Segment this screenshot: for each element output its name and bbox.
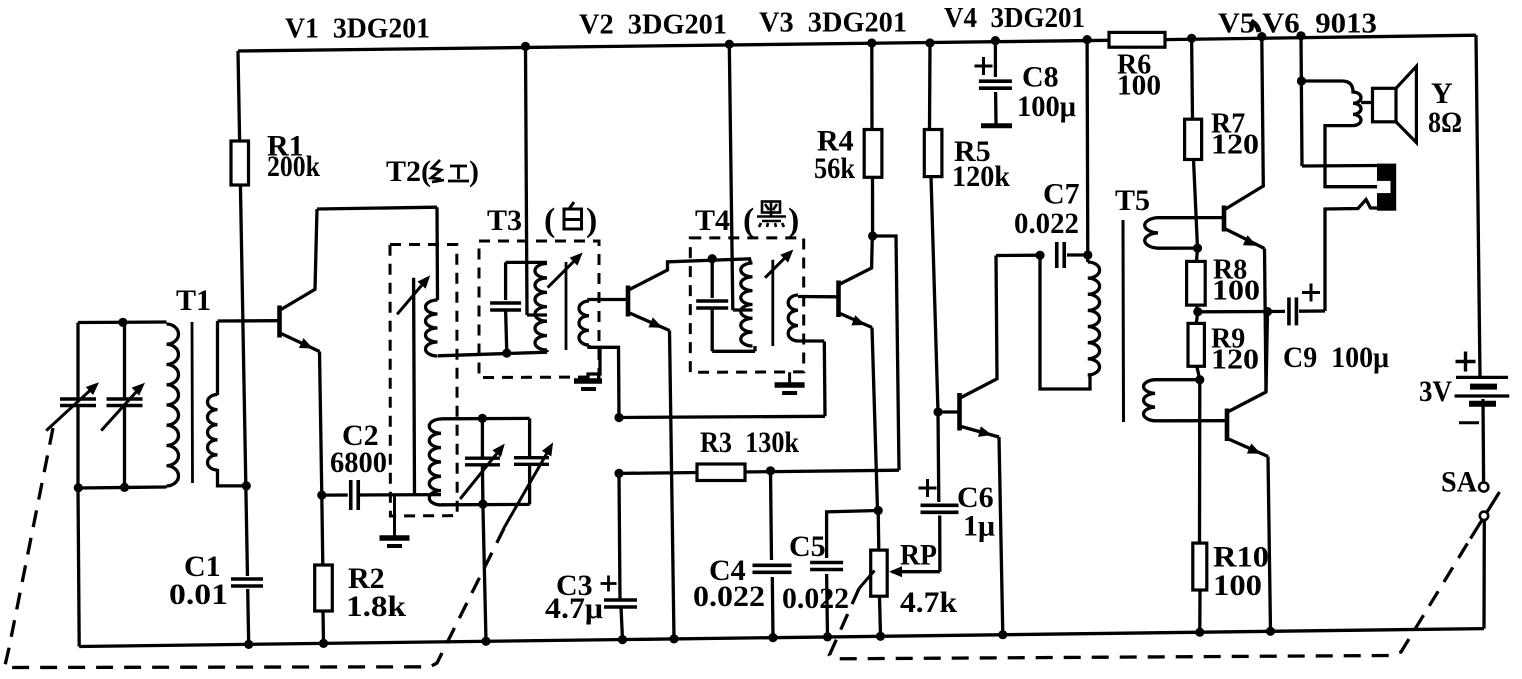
- resistor R4: [864, 130, 882, 178]
- label T4 black fullparen: [743, 202, 799, 239]
- wire AGC riser to T4 secondary: [823, 342, 827, 417]
- label V2 3DG201: [579, 9, 727, 41]
- transistor V4 base bar: [957, 393, 962, 431]
- label V3 3DG201: [759, 7, 907, 39]
- wire tank to ground rail: [78, 488, 79, 647]
- node top rail junction x1087: [1083, 35, 1092, 44]
- wire R3 line: [619, 470, 899, 473]
- wire C3 stem top: [619, 473, 620, 600]
- resistor R2 stem top: [322, 495, 323, 565]
- transformer T2 osc tank top: [441, 417, 530, 421]
- transistor V5 collector: [1226, 37, 1264, 209]
- wire tank loop left lower: [76, 407, 79, 488]
- wire rail drop to output transformer: [1301, 36, 1302, 166]
- dashed gang line tuning capacitor: [5, 428, 505, 668]
- wire T4 secondary top to V3 base: [798, 295, 837, 299]
- earphone jack: [1377, 164, 1396, 211]
- transformer T5 primary winding: [1088, 262, 1100, 375]
- label T3 white fullparen: [544, 202, 597, 239]
- label R10 value: [1213, 569, 1262, 602]
- wire C4 stem top: [771, 471, 772, 560]
- label R4 value: [814, 152, 855, 185]
- label C2: [342, 419, 379, 452]
- transformer T2 shield box dashed: [390, 245, 457, 517]
- transformer T2 primary winding: [426, 300, 438, 356]
- potentiometer RP stem top: [877, 511, 881, 551]
- wire rail drop to T4 tap: [729, 44, 752, 310]
- label T1: [176, 284, 211, 317]
- label C5: [789, 530, 826, 563]
- svg-text:T1: T1: [176, 284, 211, 317]
- transistor V3 base bar: [836, 281, 841, 318]
- node top rail junction x729: [725, 40, 734, 49]
- node bottom rail junction x1199: [1195, 628, 1204, 637]
- label R5 value: [952, 160, 1010, 193]
- svg-text:1μ: 1μ: [963, 510, 995, 543]
- variable capacitor Ca line: [481, 418, 485, 504]
- node T2 tank bottom junction: [478, 500, 487, 509]
- svg-text:V1 3DG201: V1 3DG201: [285, 13, 430, 45]
- capacitor C9: [1286, 296, 1300, 326]
- transformer T1 secondary winding: [208, 395, 218, 471]
- resistor R6: [1109, 32, 1165, 47]
- label T2: [386, 155, 431, 188]
- label R9 value: [1211, 345, 1259, 376]
- wire C7 right: [1067, 253, 1087, 256]
- label C3 value: [545, 592, 603, 625]
- label R7: [1211, 108, 1245, 139]
- label T2 red hanzi: [431, 160, 469, 182]
- node bottom rail junction x880: [876, 632, 885, 641]
- node bottom rail junction x323: [319, 639, 328, 648]
- svg-text:V2 3DG201: V2 3DG201: [579, 9, 727, 41]
- transformer T1 primary winding: [167, 324, 179, 486]
- wire C4 stem bottom: [771, 577, 775, 638]
- label C2 value: [330, 446, 387, 479]
- node R3 C4 junction: [766, 466, 775, 475]
- capacitor C6 stem top: [936, 412, 940, 502]
- label C4: [709, 554, 746, 587]
- label C6 value: [963, 510, 995, 543]
- wire rail drop to T3 tap: [526, 46, 548, 315]
- transistor V2 emitter: [630, 313, 675, 639]
- node C1b bottom: [120, 483, 129, 492]
- label R4: [817, 125, 854, 158]
- capacitor C6 plus: [919, 479, 937, 497]
- capacitor T4 internal bottom stem: [711, 308, 714, 351]
- wire V1 collector to T2 primary: [435, 207, 439, 300]
- node R8 R9 junction: [1193, 307, 1202, 316]
- label R6: [1117, 50, 1151, 81]
- node top rail junction x1262: [1257, 32, 1266, 41]
- capacitor C1: [230, 576, 264, 589]
- label V5 V6 9013: [1218, 8, 1377, 40]
- potentiometer RP wiper arrow: [889, 566, 940, 577]
- resistor R5 stem top: [928, 43, 932, 130]
- wire C9 right: [1299, 309, 1325, 313]
- svg-text:100μ: 100μ: [1017, 90, 1076, 123]
- wire C2 right: [359, 493, 441, 497]
- resistor R4 stem bottom: [871, 177, 874, 236]
- transformer T3 primary winding: [535, 264, 547, 351]
- svg-text:C8: C8: [1022, 60, 1059, 93]
- transistor V6 emitter: [1229, 439, 1271, 631]
- resistor R9 stem top: [1196, 312, 1198, 324]
- wire V4 collector to C7 node: [996, 254, 1038, 258]
- label R2: [348, 562, 385, 595]
- wire V4 base wire: [938, 410, 958, 413]
- label C9 value: [1283, 341, 1389, 374]
- resistor R9: [1188, 323, 1204, 366]
- label SA: [1441, 466, 1477, 499]
- wire C6 to RP wiper: [938, 516, 942, 572]
- label C3: [556, 569, 593, 602]
- capacitor C6: [920, 502, 960, 515]
- svg-text:0.022: 0.022: [693, 580, 765, 613]
- svg-text:0.022: 0.022: [782, 582, 849, 615]
- wire T5 primary bottom loop: [1040, 255, 1090, 389]
- transformer T2 osc winding: [429, 419, 441, 505]
- svg-text:SA: SA: [1441, 466, 1477, 499]
- label C5 value: [782, 582, 849, 615]
- wire C8 stem bottom: [994, 92, 998, 124]
- capacitor C3: [603, 597, 638, 610]
- resistor R1: [231, 141, 249, 185]
- svg-text:100: 100: [1213, 569, 1262, 602]
- transformer T1 core: [191, 322, 194, 483]
- node C7 right junction: [1083, 250, 1092, 259]
- node R8 top junction: [1193, 244, 1202, 253]
- node R9 bottom junction: [1195, 375, 1204, 384]
- resistor R10: [1193, 543, 1207, 590]
- wire R10 stem bottom: [1198, 590, 1201, 632]
- svg-text:200k: 200k: [267, 150, 320, 183]
- label R3 130k: [700, 426, 799, 459]
- transistor V6 collector: [1229, 312, 1268, 412]
- wire T4 cap bottom to winding: [712, 346, 755, 351]
- node V5V6 C9 junction: [1263, 307, 1272, 316]
- node bottom rail junction x1270: [1266, 627, 1275, 636]
- wire T4 secondary bottom: [798, 339, 824, 342]
- wire T2 primary bottom to T3: [438, 352, 547, 356]
- wire V3 collector jog to R3 riser: [873, 236, 899, 470]
- ground T2 ground: [380, 496, 410, 546]
- ground T3 ground: [574, 347, 602, 389]
- speaker Y stub: [1361, 101, 1373, 104]
- svg-text:(: (: [743, 202, 754, 239]
- node bottom rail junction x486: [481, 637, 490, 646]
- node T1 secondary bottom junction: [242, 481, 251, 490]
- label R2 value: [346, 590, 406, 623]
- svg-text:56k: 56k: [814, 152, 855, 185]
- wire switch to bottom rail: [1482, 520, 1486, 629]
- transformer T3 shield box dashed: [479, 241, 599, 378]
- wire top supply rail right segment: [1165, 35, 1476, 39]
- label C8: [1022, 60, 1059, 93]
- wire bottom ground rail: [79, 629, 1484, 647]
- wire tank loop bottom: [78, 487, 167, 488]
- node top rail junction x872: [867, 38, 876, 47]
- svg-text:120: 120: [1211, 130, 1259, 161]
- node bottom rail junction x674: [669, 634, 678, 643]
- wire V5 base wire: [1158, 216, 1222, 219]
- label C6: [957, 481, 994, 514]
- transistor V6 base bar: [1225, 409, 1230, 442]
- svg-text:120k: 120k: [952, 160, 1010, 193]
- capacitor T4 internal top stem: [711, 259, 714, 298]
- wire tank loop top: [78, 320, 167, 324]
- wire R5 to V4 base node: [931, 177, 938, 412]
- wire V1 base wire: [218, 319, 278, 323]
- svg-text:V5: V5: [1218, 8, 1255, 40]
- capacitor C5: [809, 560, 844, 573]
- capacitor T3 internal bottom stem: [506, 310, 507, 353]
- svg-text:4.7k: 4.7k: [900, 586, 957, 619]
- svg-text:4.7μ: 4.7μ: [545, 592, 603, 625]
- label R1: [267, 130, 304, 163]
- wire R1 branch vertical: [238, 51, 249, 644]
- resistor R5: [924, 130, 942, 177]
- svg-text:T5: T5: [1115, 184, 1150, 217]
- transistor V3 collector: [840, 236, 872, 284]
- svg-text:T4: T4: [695, 204, 730, 237]
- node top rail junction x525: [521, 42, 530, 51]
- label RP: [900, 539, 937, 572]
- node tank bottom left: [74, 483, 83, 492]
- wire T3 secondary bottom: [589, 345, 619, 418]
- label C7 value: [1014, 207, 1079, 240]
- wire battery negative to switch: [1481, 399, 1485, 482]
- resistor R8 stem top: [1197, 248, 1198, 261]
- node AGC junction x619 lower: [614, 469, 623, 478]
- node V4 base junction: [933, 407, 942, 416]
- transformer T3 secondary winding: [579, 301, 589, 345]
- label Y: [1431, 77, 1453, 110]
- label R9: [1211, 323, 1245, 354]
- label T4 black hanzi: [757, 202, 786, 228]
- transistor V2 base bar: [626, 286, 631, 317]
- transistor V1 emitter: [281, 334, 322, 496]
- label T2 close paren: [469, 155, 479, 188]
- svg-text:6800: 6800: [330, 446, 387, 479]
- svg-text:V4 3DG201: V4 3DG201: [944, 2, 1085, 34]
- transformer T3 core: [565, 262, 568, 350]
- label RP value: [900, 586, 957, 619]
- variable capacitor C1b plates: [107, 399, 143, 406]
- node V3 collector junction: [868, 231, 877, 240]
- svg-text:0.01: 0.01: [169, 578, 228, 611]
- capacitor C8: [978, 78, 1013, 91]
- transformer T2 core arrow: [397, 275, 430, 314]
- svg-text:): ): [586, 202, 597, 239]
- label C4 value: [693, 580, 765, 613]
- speaker Y: [1373, 66, 1417, 142]
- wire C5 stem bottom: [825, 574, 829, 637]
- wire T1 secondary top riser: [216, 321, 219, 395]
- label R10: [1213, 541, 1269, 574]
- capacitor C2: [348, 479, 362, 511]
- resistor R8: [1187, 261, 1206, 305]
- wire T3 secondary top to V2 base: [589, 300, 627, 302]
- label R1 value: [267, 150, 320, 183]
- variable capacitor C1a plates: [60, 399, 96, 406]
- output transformer winding: [1301, 81, 1377, 187]
- variable capacitor Cb plates: [514, 458, 549, 465]
- svg-text:T2(: T2(: [386, 155, 431, 188]
- wire C1b line upper: [123, 322, 126, 397]
- resistor R2: [315, 565, 333, 611]
- wire top supply rail left segment: [238, 40, 1109, 51]
- label C8 value: [1017, 90, 1076, 123]
- label C1: [184, 550, 221, 583]
- transformer T4 secondary winding: [788, 295, 798, 341]
- transistor V1 base bar: [277, 306, 282, 338]
- node T3 cap bottom junction: [502, 349, 511, 358]
- svg-text:(: (: [544, 202, 555, 239]
- wire C2 left: [322, 493, 350, 496]
- label R5: [954, 135, 991, 168]
- node AGC junction x619 upper: [614, 413, 623, 422]
- node T2 tank top junction: [478, 414, 487, 423]
- node top rail junction x1192: [1187, 34, 1196, 43]
- transformer T4 core: [771, 260, 774, 346]
- variable capacitor Ca arrow: [460, 444, 505, 499]
- node C5 RP junction: [874, 506, 883, 515]
- node bottom rail junction x773: [768, 633, 777, 642]
- capacitor C8 end bar: [981, 123, 1012, 128]
- resistor R7 stem top: [1190, 38, 1194, 119]
- transistor V3 emitter: [840, 314, 878, 511]
- resistor R4 stem top: [870, 43, 874, 130]
- transistor V5 base bar: [1222, 206, 1227, 232]
- variable capacitor Cb arrow: [504, 442, 553, 528]
- label R8 value: [1212, 276, 1260, 307]
- wire C5 link: [827, 511, 879, 559]
- transformer T5 core: [1122, 220, 1126, 422]
- capacitor C9 plus: [1302, 284, 1320, 302]
- transformer T4 shield box dashed: [690, 238, 803, 372]
- svg-text:0.022: 0.022: [1014, 207, 1079, 240]
- ground T4 ground: [775, 372, 805, 393]
- node bottom rail junction x827: [823, 632, 832, 641]
- wire AGC line: [619, 416, 825, 417]
- capacitor C7: [1054, 241, 1068, 269]
- transistor V4 collector: [961, 256, 997, 398]
- node top rail junction x995: [991, 36, 1000, 45]
- wire right edge supply drop to battery: [1476, 35, 1480, 376]
- wire V2 collector into T4: [0, 0, 1, 1]
- wire T2 tank to ground rail: [483, 504, 486, 641]
- svg-text:1.8k: 1.8k: [346, 590, 406, 623]
- label T4: [695, 204, 730, 237]
- svg-text:T3: T3: [487, 204, 522, 237]
- svg-text:V3 3DG201: V3 3DG201: [759, 7, 907, 39]
- wire R7 to winding junction: [1194, 160, 1198, 249]
- potentiometer RP slash: [859, 571, 875, 589]
- transformer T3 core arrow: [548, 253, 583, 288]
- svg-text:C7: C7: [1043, 178, 1080, 211]
- transistor V5 emitter: [1226, 229, 1267, 392]
- transformer T5 secondary bottom winding: [1144, 380, 1226, 421]
- label R7 value: [1211, 130, 1259, 161]
- svg-text:): ): [469, 155, 479, 188]
- wire C3 stem bottom: [621, 607, 623, 640]
- svg-text:V6 9013: V6 9013: [1262, 8, 1377, 40]
- svg-text:100: 100: [1117, 70, 1161, 101]
- transistor V1 collector: [281, 207, 437, 309]
- resistor R9 stem bottom: [1197, 366, 1200, 379]
- transformer T4 core arrow: [765, 250, 793, 278]
- label R8: [1213, 254, 1247, 285]
- potentiometer RP: [871, 550, 888, 596]
- node V1 emitter C2 junction: [317, 491, 326, 500]
- wire T2 feedback line: [412, 278, 416, 495]
- svg-text:RP: RP: [900, 539, 937, 572]
- resistor R8 stem bottom: [1197, 305, 1198, 312]
- switch SA: [1471, 482, 1500, 538]
- node top rail junction x1301: [1296, 31, 1305, 40]
- variable capacitor Cb line: [528, 418, 531, 504]
- wire tank loop left / C1a line upper: [76, 323, 79, 398]
- capacitor T4 internal: [695, 298, 729, 311]
- svg-text:R3 130k: R3 130k: [700, 426, 799, 459]
- node bottom rail junction x248: [244, 640, 253, 649]
- node top rail junction x930: [925, 38, 934, 47]
- svg-text:8Ω: 8Ω: [1428, 106, 1462, 139]
- capacitor C4: [752, 562, 793, 575]
- label T3 white hanzi: [564, 202, 582, 229]
- wire T1 secondary bottom: [218, 469, 247, 486]
- jack spring contact: [1325, 200, 1377, 312]
- label V4 3DG201: [944, 2, 1085, 34]
- node T4 cap top junction: [708, 254, 717, 263]
- transformer T5 secondary top winding: [1145, 218, 1198, 249]
- node C1b top: [118, 318, 127, 327]
- node C7 left junction: [1035, 251, 1044, 260]
- wire jack frame feed: [1302, 164, 1377, 168]
- transformer T4 primary winding: [741, 263, 753, 346]
- node bottom rail junction x622: [618, 635, 627, 644]
- variable capacitor C1b arrow: [101, 383, 145, 431]
- resistor R2 stem bottom: [321, 611, 325, 643]
- wire T3 primary bottom stub: [545, 350, 548, 352]
- node bottom rail junction x1002: [998, 630, 1007, 639]
- label R6 value: [1117, 70, 1161, 101]
- label C7: [1043, 178, 1080, 211]
- label C3 plus: [601, 576, 617, 592]
- wire R8R9 node to C9: [1198, 310, 1285, 314]
- label Y value: [1428, 106, 1462, 139]
- capacitor T3 internal: [489, 300, 522, 313]
- capacitor C8 stem top: [994, 41, 997, 77]
- capacitor T3 internal top loop: [506, 262, 547, 300]
- svg-text:100: 100: [1212, 276, 1260, 307]
- transistor V4 emitter: [961, 426, 1003, 634]
- label 3V: [1419, 375, 1452, 408]
- resistor R7: [1185, 119, 1202, 159]
- label C1 value: [169, 578, 228, 611]
- svg-text:120: 120: [1211, 345, 1259, 376]
- svg-text:): ): [788, 202, 799, 239]
- dashed gang line volume switch: [830, 539, 1471, 659]
- label V1 3DG201: [285, 13, 430, 45]
- variable capacitor C1a arrow: [46, 382, 99, 430]
- node output transformer top junction: [1297, 76, 1306, 85]
- variable capacitor Ca plates: [465, 458, 500, 465]
- label T3: [487, 204, 522, 237]
- wire rail drop to T5 primary: [1085, 40, 1089, 262]
- wire C1b line lower: [123, 407, 126, 487]
